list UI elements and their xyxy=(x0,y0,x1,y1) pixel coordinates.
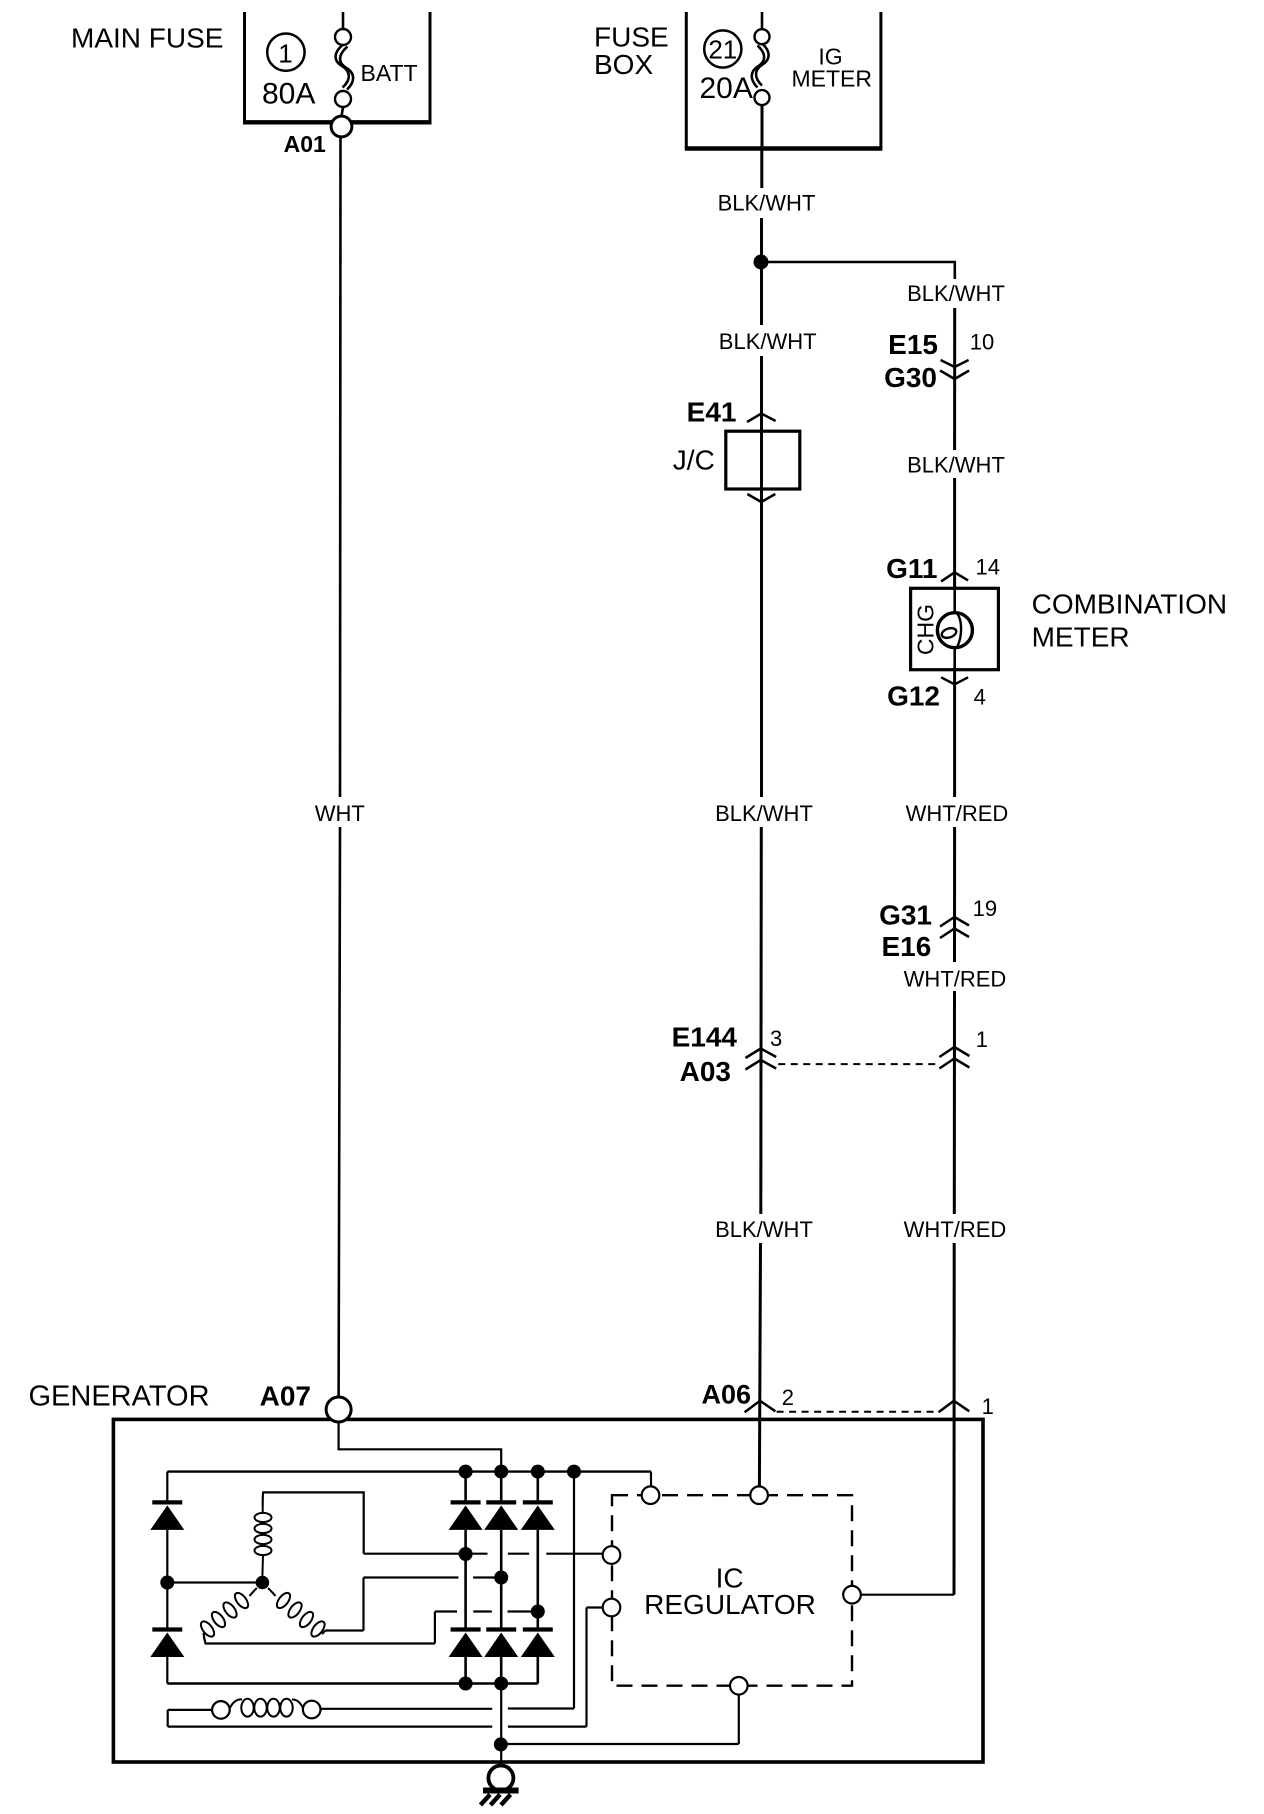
svg-text:2: 2 xyxy=(782,1385,794,1410)
svg-text:G12: G12 xyxy=(887,681,940,712)
svg-text:J/C: J/C xyxy=(673,445,715,476)
svg-text:BLK/WHT: BLK/WHT xyxy=(719,329,817,354)
svg-text:G31: G31 xyxy=(879,899,932,930)
svg-text:WHT/RED: WHT/RED xyxy=(906,801,1009,826)
svg-text:BLK/WHT: BLK/WHT xyxy=(715,801,813,826)
svg-text:A07: A07 xyxy=(260,1381,311,1412)
svg-text:WHT/RED: WHT/RED xyxy=(904,966,1007,991)
svg-text:BLK/WHT: BLK/WHT xyxy=(907,281,1005,306)
svg-text:E41: E41 xyxy=(687,396,737,427)
svg-text:A03: A03 xyxy=(680,1056,731,1087)
svg-text:WHT/RED: WHT/RED xyxy=(904,1217,1007,1242)
svg-text:BLK/WHT: BLK/WHT xyxy=(718,191,816,216)
svg-text:14: 14 xyxy=(976,555,1000,580)
svg-text:1: 1 xyxy=(976,1027,988,1052)
svg-text:E16: E16 xyxy=(881,931,931,962)
svg-text:BOX: BOX xyxy=(594,49,653,80)
svg-text:WHT: WHT xyxy=(315,801,365,826)
svg-text:GENERATOR: GENERATOR xyxy=(29,1381,210,1413)
svg-text:3: 3 xyxy=(770,1026,782,1051)
svg-text:BLK/WHT: BLK/WHT xyxy=(907,453,1005,478)
svg-text:A06: A06 xyxy=(701,1379,751,1409)
svg-text:E144: E144 xyxy=(672,1022,738,1053)
svg-text:REGULATOR: REGULATOR xyxy=(644,1589,816,1620)
svg-text:80A: 80A xyxy=(262,77,315,110)
svg-text:E15: E15 xyxy=(888,329,938,360)
svg-text:21: 21 xyxy=(708,35,737,65)
svg-text:METER: METER xyxy=(1032,622,1130,653)
svg-text:20A: 20A xyxy=(700,72,753,105)
svg-text:19: 19 xyxy=(973,896,997,921)
svg-text:BLK/WHT: BLK/WHT xyxy=(715,1217,813,1242)
svg-text:G11: G11 xyxy=(886,553,937,584)
svg-text:BATT: BATT xyxy=(361,60,418,86)
svg-text:1: 1 xyxy=(278,39,292,69)
svg-text:MAIN FUSE: MAIN FUSE xyxy=(71,23,223,54)
svg-text:METER: METER xyxy=(791,66,872,92)
svg-text:10: 10 xyxy=(970,330,994,355)
svg-text:COMBINATION: COMBINATION xyxy=(1032,589,1227,620)
svg-text:A01: A01 xyxy=(284,131,326,157)
svg-text:CHG: CHG xyxy=(913,604,939,655)
svg-text:4: 4 xyxy=(974,685,986,710)
svg-text:1: 1 xyxy=(982,1394,994,1419)
svg-text:G30: G30 xyxy=(884,362,937,393)
